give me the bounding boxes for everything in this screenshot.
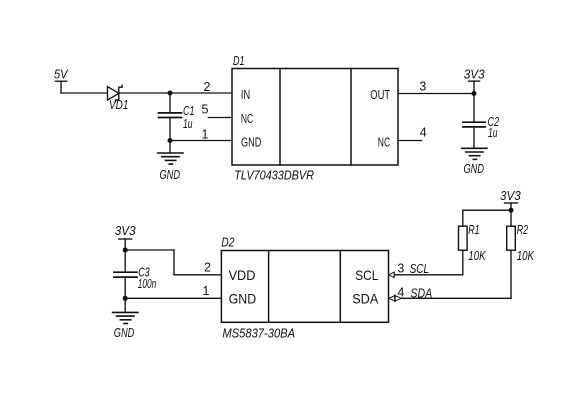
svg-text:5V: 5V — [54, 67, 69, 82]
power flag 3V3 (bottom left) — [119, 239, 132, 250]
wire C2 bottom to ground — [473, 127, 475, 148]
svg-text:NC: NC — [241, 111, 253, 126]
wire to pin 2 VDD — [174, 274, 221, 276]
svg-text:4: 4 — [420, 126, 427, 140]
svg-text:3: 3 — [397, 261, 404, 275]
svg-text:R1: R1 — [468, 222, 479, 237]
resistor R1 — [459, 226, 468, 250]
wire 3V3 node down to C3 — [124, 250, 126, 272]
wire down to VDD row — [173, 250, 175, 275]
svg-text:1u: 1u — [488, 125, 498, 140]
wire gnd node down to ground — [169, 141, 171, 154]
wire gnd node to pin 1 of D1 — [170, 140, 232, 142]
wire SDA — [401, 297, 511, 299]
svg-text:SDA: SDA — [352, 291, 379, 307]
wire SDA up to R2 — [510, 250, 512, 298]
pin 4 bidirectional arrow — [389, 295, 402, 301]
wire 3V3 node right — [125, 249, 174, 251]
svg-text:3: 3 — [419, 80, 426, 94]
wire stub pin 5 of D1 — [208, 117, 232, 119]
svg-text:GND: GND — [160, 167, 181, 182]
svg-text:OUT: OUT — [370, 87, 390, 102]
pin 3 input arrow — [389, 272, 395, 278]
wire diode cathode to pin 2 of D1 — [119, 92, 232, 94]
svg-text:GND: GND — [229, 290, 257, 306]
capacitor C1 — [159, 113, 182, 118]
svg-text:VD1: VD1 — [109, 97, 129, 112]
wire stub pin 4 NC — [398, 140, 422, 142]
wire SCL up to R1 — [462, 250, 464, 275]
svg-text:GND: GND — [241, 134, 261, 149]
svg-text:R2: R2 — [517, 222, 529, 237]
node junction at 3V3 / R2 — [509, 208, 514, 213]
svg-text:3V3: 3V3 — [464, 66, 485, 81]
svg-text:GND: GND — [464, 161, 485, 176]
svg-text:MS5837-30BA: MS5837-30BA — [222, 326, 295, 341]
wire gnd node to pin 1 GND of D2 — [125, 297, 221, 299]
svg-text:10K: 10K — [517, 248, 535, 263]
svg-text:3V3: 3V3 — [500, 188, 521, 203]
wire R2 top to 3V3 node — [510, 210, 512, 226]
svg-text:NC: NC — [378, 134, 390, 149]
ground (under C2) — [462, 148, 487, 159]
svg-text:SCL: SCL — [410, 261, 430, 276]
svg-text:TLV70433DBVR: TLV70433DBVR — [234, 168, 314, 183]
svg-text:D1: D1 — [233, 53, 245, 68]
svg-text:1u: 1u — [183, 116, 193, 131]
node junction at C3 bottom — [123, 296, 128, 301]
svg-text:1: 1 — [202, 128, 209, 142]
node junction at C1 bottom — [168, 138, 173, 143]
svg-text:5: 5 — [202, 102, 209, 116]
power flag 3V3 (right) — [505, 203, 518, 210]
diode VD1 (Schottky) — [108, 85, 123, 102]
svg-text:D2: D2 — [221, 235, 235, 250]
wire pin 3 OUT to 3V3 node — [398, 93, 474, 95]
svg-text:SCL: SCL — [355, 267, 378, 283]
power flag 5V — [56, 81, 67, 93]
svg-text:2: 2 — [204, 80, 211, 94]
wire junction down to C1 — [169, 93, 171, 113]
svg-text:GND: GND — [114, 325, 135, 340]
node junction 3V3 / C3 top — [123, 248, 128, 253]
node junction at C1 top — [168, 91, 173, 96]
capacitor C2 — [463, 122, 485, 127]
wire 3V3 node down to C2 — [473, 94, 475, 123]
svg-text:IN: IN — [241, 87, 250, 102]
power flag 3V3 (top right) — [469, 81, 480, 93]
capacitor C3 — [114, 272, 137, 277]
svg-text:1: 1 — [203, 284, 210, 298]
ground (under C3) — [113, 312, 138, 323]
svg-text:10K: 10K — [468, 248, 486, 263]
wire C1 bottom to gnd node — [169, 118, 171, 141]
wire R1 top to 3V3 — [463, 210, 511, 226]
svg-text:2: 2 — [204, 260, 211, 274]
wire 5V to diode anode — [61, 92, 108, 94]
wire C3 bottom to gnd node — [124, 277, 126, 298]
resistor R2 — [507, 226, 516, 250]
node junction at OUT / C2 — [472, 91, 477, 96]
svg-text:100n: 100n — [138, 276, 157, 291]
svg-text:3V3: 3V3 — [115, 223, 136, 238]
op-amp U1 : IC D1 body — [232, 69, 398, 166]
IC D2 body — [221, 251, 388, 323]
wire SCL — [394, 274, 463, 276]
wire gnd node down to ground — [124, 298, 126, 312]
svg-text:VDD: VDD — [229, 267, 256, 283]
ground (under C1) — [158, 153, 183, 164]
